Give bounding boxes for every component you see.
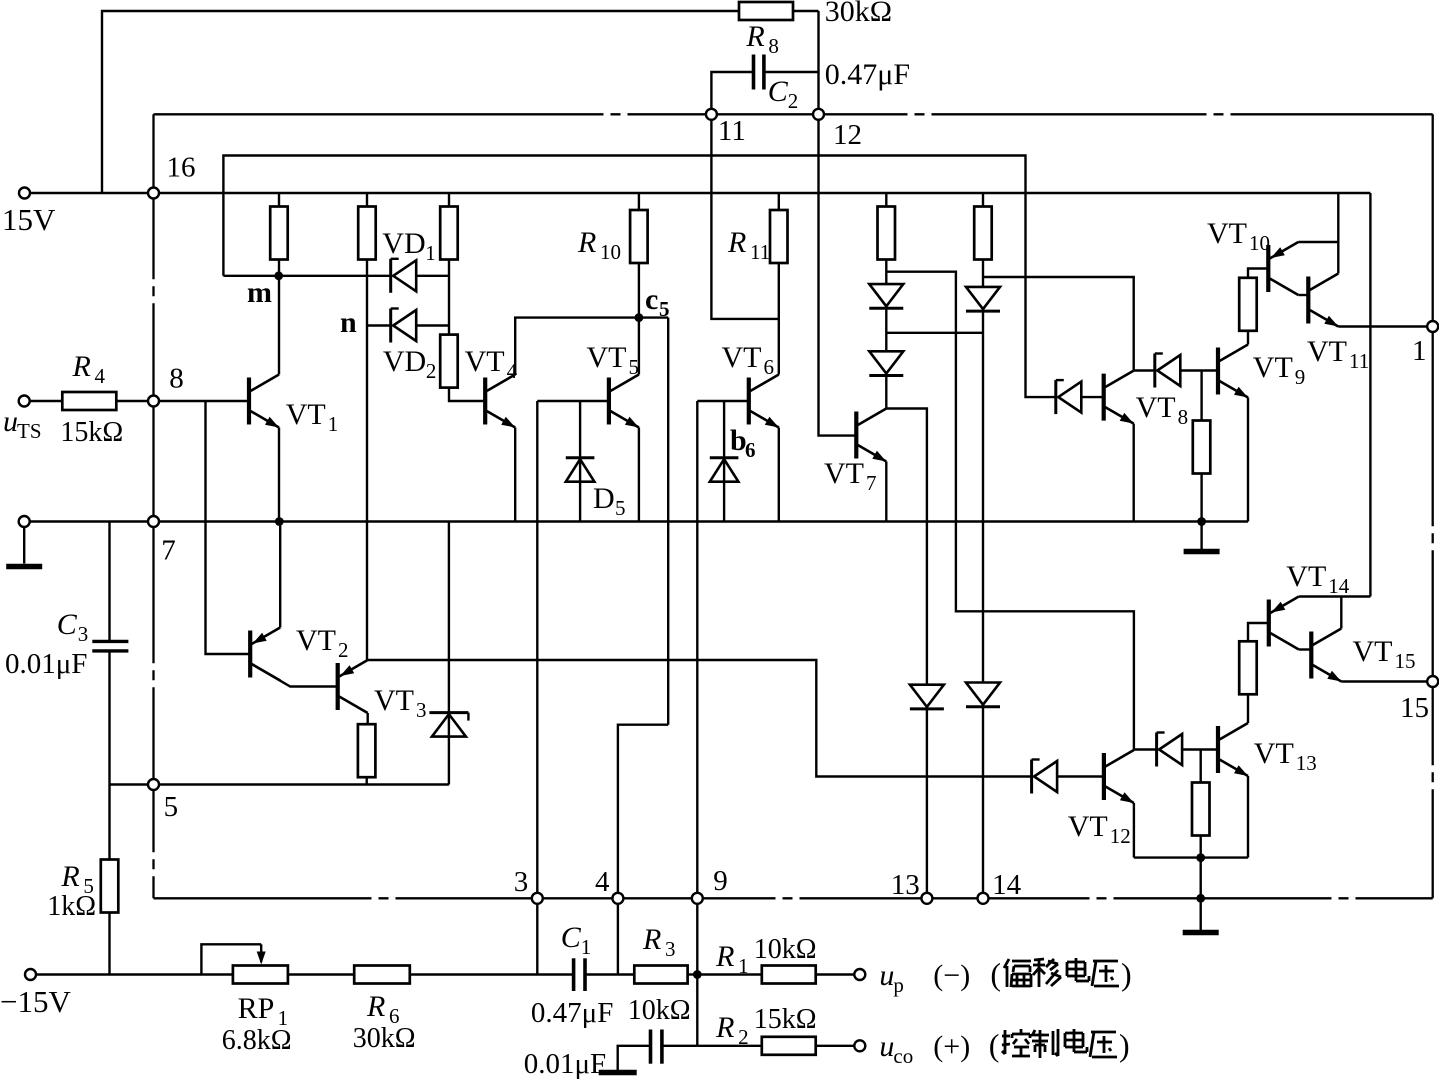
resistor (VT14 base) bbox=[1239, 641, 1257, 694]
wire VT15 emitter to pin 15 bbox=[1341, 680, 1427, 682]
resistor (VT10 base) bbox=[1239, 278, 1257, 331]
svg-text:2: 2 bbox=[738, 1025, 749, 1049]
svg-text:C: C bbox=[57, 608, 78, 641]
diode chain-2 upper bbox=[966, 287, 1000, 309]
wire VD1 anode to column bbox=[416, 275, 449, 277]
svg-text:): ) bbox=[1119, 1027, 1130, 1063]
svg-text:VT: VT bbox=[465, 345, 505, 378]
pin 5 bbox=[148, 779, 159, 790]
wire ground rail pin 7 bbox=[29, 520, 1248, 522]
15V supply terminal bbox=[19, 188, 30, 199]
svg-text:1: 1 bbox=[328, 412, 339, 436]
wire node m to VD1 cathode bbox=[223, 275, 390, 277]
wire terminal to R4 bbox=[29, 400, 62, 402]
svg-text:(+): (+) bbox=[933, 1030, 970, 1063]
svg-text:10: 10 bbox=[1249, 231, 1270, 255]
wire 0.01uF cap right lead bbox=[662, 1045, 697, 1047]
ground symbol below VT12/13 bbox=[1183, 930, 1219, 936]
resistor R11 bbox=[770, 210, 788, 263]
wire pin-11 column down to R11 node bbox=[711, 114, 778, 319]
wire stub rail to R11 bbox=[778, 193, 780, 210]
svg-text:8: 8 bbox=[768, 34, 779, 58]
resistor (bias chain n) bbox=[358, 207, 376, 260]
wire rail down to C3 bbox=[108, 522, 110, 642]
resistor (bias chain VD1) bbox=[440, 207, 458, 260]
wire chain-2 column bbox=[982, 311, 984, 682]
wire stub rail to chain-1 resistor bbox=[885, 193, 887, 207]
svg-text:6.8kΩ: 6.8kΩ bbox=[222, 1025, 292, 1056]
pin 16 bbox=[148, 188, 159, 199]
svg-text:u: u bbox=[879, 1030, 894, 1063]
svg-text:12: 12 bbox=[1110, 824, 1131, 848]
svg-text:VD: VD bbox=[382, 227, 425, 260]
wire resistor to VT10 base bbox=[1248, 269, 1268, 278]
wire c5 corner down to pin-4 jog bbox=[667, 318, 669, 725]
wire emitter common line bbox=[1134, 856, 1248, 858]
wire 15V rail corner down to VT14 bbox=[1369, 193, 1371, 597]
wire C3 to R5 bbox=[108, 651, 110, 860]
svg-text:R: R bbox=[727, 226, 746, 259]
capacitor C2 plates bbox=[752, 55, 756, 90]
wire stub rail to R10 bbox=[638, 193, 640, 210]
wire D5 column bbox=[579, 401, 581, 522]
wire resistor to node n and VT3 emitter bbox=[366, 260, 368, 660]
wire R5 to -15V rail bbox=[108, 913, 110, 975]
wire VT8 emitter to ground rail bbox=[1132, 424, 1134, 522]
svg-text:VT: VT bbox=[1254, 737, 1294, 770]
svg-text:4: 4 bbox=[595, 866, 610, 898]
transistor VT9 bbox=[1216, 348, 1220, 395]
wire VT13 base resistor stub bbox=[1199, 750, 1201, 783]
wire chain-2 to VT8 collector bbox=[983, 277, 1134, 371]
svg-text:14: 14 bbox=[1328, 574, 1350, 598]
wire chain cross link bbox=[886, 332, 983, 334]
wire pin-5 line bbox=[110, 783, 449, 785]
svg-text:D: D bbox=[593, 482, 615, 515]
wire VT14 emitter to supply drop bbox=[1299, 595, 1371, 597]
diode chain-1 lower bbox=[869, 351, 903, 373]
svg-text:7: 7 bbox=[161, 535, 176, 567]
wire stub rail to R(VD column 3) bbox=[448, 193, 450, 207]
u_TS input terminal bbox=[19, 396, 30, 407]
wire pin-9 column bbox=[696, 401, 698, 898]
diode at pin-14 column bbox=[966, 683, 1000, 705]
resistor R1 10k bbox=[762, 966, 816, 984]
svg-text:c: c bbox=[645, 283, 658, 316]
svg-text:15: 15 bbox=[1400, 692, 1429, 724]
capacitor 0.01uF plates bbox=[649, 1030, 653, 1064]
wire from 15V branch up to R8 bbox=[102, 11, 739, 193]
svg-text:3: 3 bbox=[78, 622, 89, 646]
svg-text:15kΩ: 15kΩ bbox=[60, 417, 123, 448]
wire R8 right to pin-12 column bbox=[792, 10, 818, 12]
wire R11 down to VT6 collector bbox=[778, 263, 780, 375]
RP1 wiper return wire bbox=[201, 944, 261, 974]
potentiometer RP1 body bbox=[233, 966, 288, 984]
svg-text:15V: 15V bbox=[2, 202, 56, 237]
resistor R2 15k bbox=[762, 1037, 816, 1055]
wire resistor to node m bbox=[278, 260, 280, 276]
svg-text:(−): (−) bbox=[933, 959, 970, 992]
wire VT2 collector to VT3 base bbox=[252, 664, 338, 687]
wire bottom node to R2 bbox=[697, 1045, 762, 1047]
ground symbol below VT9 resistor bbox=[1200, 522, 1202, 550]
wire -15V rail to RP1 bbox=[36, 973, 233, 975]
capacitor C1 plates bbox=[572, 958, 576, 991]
svg-text:VT: VT bbox=[587, 341, 627, 374]
wire RP1 to R6 bbox=[288, 973, 354, 975]
wire VT12 collector to diode bbox=[1134, 748, 1157, 750]
diode at VT12 base bbox=[1030, 760, 1033, 794]
wire diode to VT13 base bbox=[1182, 748, 1218, 750]
svg-text:9: 9 bbox=[713, 865, 728, 897]
pin 3 bbox=[532, 893, 543, 904]
transistor VT4 bbox=[483, 378, 487, 425]
svg-text:3: 3 bbox=[665, 937, 676, 961]
svg-text:10: 10 bbox=[600, 240, 621, 264]
svg-text:9: 9 bbox=[1295, 365, 1306, 389]
svg-text:5: 5 bbox=[615, 496, 626, 520]
wire R1 to u_p terminal bbox=[816, 973, 855, 975]
wire VT3 node to VT12 base diode bbox=[368, 660, 1032, 777]
wire VD2 anode to column bbox=[416, 324, 449, 326]
IC boundary left edge (dash-dot) bbox=[152, 114, 154, 898]
transistor VT8 bbox=[1102, 374, 1106, 421]
wire VT10 emitter to supply bbox=[1298, 241, 1338, 243]
transistor VT3 (PNP) bbox=[336, 663, 340, 710]
wire 0.01uF cap left lead to ground bbox=[618, 1046, 651, 1070]
svg-text:30kΩ: 30kΩ bbox=[825, 0, 892, 28]
junction resistor/ground rail bbox=[1197, 517, 1206, 526]
wire R4 to pin 8 and VT1 base bbox=[116, 400, 250, 402]
resistor R5 1k bbox=[101, 860, 119, 913]
wire C2 right lead bbox=[764, 71, 819, 73]
svg-text:VT: VT bbox=[1286, 560, 1326, 593]
wire R3 to junction bbox=[688, 973, 698, 975]
diode between VT12 and VT13 bbox=[1155, 733, 1158, 767]
svg-text:n: n bbox=[340, 306, 357, 339]
svg-text:u: u bbox=[3, 405, 18, 438]
svg-text:1kΩ: 1kΩ bbox=[47, 891, 96, 922]
svg-text:12: 12 bbox=[833, 119, 862, 151]
wire VT10 collector to VT11 base bbox=[1298, 294, 1308, 296]
svg-text:1: 1 bbox=[425, 241, 436, 265]
svg-text:15kΩ: 15kΩ bbox=[754, 1004, 817, 1035]
svg-text:RP: RP bbox=[238, 992, 275, 1025]
wire b6 diode column bbox=[723, 401, 725, 522]
wire supply to VT15 collector bbox=[1340, 597, 1342, 629]
wire VT2 emitter up to rail bbox=[279, 522, 281, 628]
transistor VT5 bbox=[607, 378, 611, 425]
wire VT7 emitter to ground rail bbox=[885, 462, 887, 522]
svg-text:VT: VT bbox=[722, 341, 762, 374]
resistor (VT4 base feed) bbox=[440, 335, 458, 388]
resistor R8 30k (horizontal) bbox=[739, 2, 793, 20]
diode (VT3 bias, on pin-5 column) bbox=[429, 711, 468, 714]
svg-text:30kΩ: 30kΩ bbox=[353, 1023, 416, 1054]
svg-text:R: R bbox=[60, 860, 79, 893]
wire VT14 collector to VT15 base bbox=[1299, 648, 1312, 650]
pin 11 bbox=[706, 109, 717, 120]
svg-text:VT: VT bbox=[1207, 217, 1247, 250]
ground symbol at input bbox=[23, 527, 25, 564]
svg-text:C: C bbox=[561, 921, 582, 954]
svg-text:8: 8 bbox=[169, 363, 184, 395]
svg-text:VT: VT bbox=[1253, 351, 1293, 384]
junction emitter common bbox=[1196, 853, 1205, 862]
wire diode to VT12 base bbox=[1057, 775, 1104, 777]
svg-text:VT: VT bbox=[374, 684, 414, 717]
wire C1 to R3 bbox=[585, 973, 634, 975]
svg-text:14: 14 bbox=[992, 869, 1022, 901]
svg-text:6: 6 bbox=[745, 438, 756, 462]
pin 9 bbox=[692, 893, 703, 904]
svg-text:7: 7 bbox=[866, 471, 877, 495]
svg-text:11: 11 bbox=[1349, 349, 1369, 373]
wire VT9 emitter to ground rail bbox=[1247, 398, 1249, 522]
svg-text:VT: VT bbox=[1307, 335, 1347, 368]
u_p terminal bbox=[854, 969, 865, 980]
svg-text:10kΩ: 10kΩ bbox=[628, 995, 691, 1026]
diode chain-1 upper bbox=[869, 284, 903, 306]
svg-text:VD: VD bbox=[383, 345, 426, 378]
wire diode to pin 13 bbox=[926, 709, 928, 898]
wire VT3 collector to emitter resistor bbox=[367, 713, 369, 724]
wire VT6 emitter to ground rail bbox=[778, 428, 780, 522]
svg-text:10kΩ: 10kΩ bbox=[754, 934, 817, 965]
junction on pin line bbox=[1196, 894, 1205, 903]
svg-text:C: C bbox=[768, 75, 789, 108]
IC boundary top edge (dash-dot) bbox=[154, 113, 1433, 115]
svg-text:13: 13 bbox=[891, 869, 920, 901]
svg-text:0.01μF: 0.01μF bbox=[524, 1048, 606, 1080]
wire chain-1 top to mirror column bbox=[886, 272, 1134, 750]
svg-text:−15V: −15V bbox=[0, 984, 71, 1019]
wire m-node to VT8 diode column bbox=[223, 156, 1055, 398]
svg-text:VT: VT bbox=[1136, 391, 1176, 424]
resistor (VT9 emitter-base) bbox=[1193, 421, 1211, 474]
wire resistor to pin-5 line bbox=[366, 777, 368, 784]
pin 8 bbox=[148, 396, 159, 407]
transistor VT10 (PNP) bbox=[1266, 245, 1270, 292]
wire stub rail to R(VD column 2) bbox=[366, 193, 368, 207]
wire pin5-column up to ground rail bbox=[448, 522, 450, 785]
wire diode to VT8 base bbox=[1081, 396, 1103, 398]
svg-text:0.01μF: 0.01μF bbox=[5, 648, 87, 680]
diode VD2 bbox=[389, 309, 392, 343]
svg-text:2: 2 bbox=[788, 89, 799, 113]
wire VT5 emitter to ground rail bbox=[638, 428, 640, 522]
resistor (VT12/13 emitter) bbox=[1192, 783, 1210, 836]
node c5 junction bbox=[635, 313, 644, 322]
svg-text:4: 4 bbox=[507, 359, 518, 383]
svg-text:TS: TS bbox=[17, 419, 42, 443]
wire VT9 base resistor stub bbox=[1200, 371, 1202, 421]
svg-text:4: 4 bbox=[95, 364, 106, 388]
svg-text:m: m bbox=[247, 276, 272, 309]
wire VT1 emitter to ground rail bbox=[278, 428, 280, 522]
wire VT4 collector to c5 line bbox=[515, 318, 668, 375]
svg-text:11: 11 bbox=[750, 240, 770, 264]
svg-text:R: R bbox=[642, 923, 661, 956]
wire node n to VD2 bbox=[367, 324, 391, 326]
wire VT12 emitter down to common bbox=[1133, 803, 1135, 858]
wire C2 left lead bbox=[711, 72, 753, 114]
ground input terminal bbox=[19, 516, 30, 527]
wire VT14 base to resistor bbox=[1248, 623, 1269, 641]
wire resistor to ground rail bbox=[1200, 474, 1202, 522]
resistor R6 30k bbox=[354, 966, 410, 984]
resistor (VT3 emitter) bbox=[358, 724, 376, 777]
resistor (diode chain 2) bbox=[974, 207, 992, 260]
IC boundary right edge (dash-dot) bbox=[1432, 114, 1434, 898]
pin 14 bbox=[978, 893, 989, 904]
wire supply drop to VT11 collector bbox=[1337, 193, 1339, 274]
wire chain-1 to VT7 collector bbox=[885, 376, 887, 409]
resistor (diode chain 1) bbox=[878, 207, 896, 260]
wire VT8 collector to diode bbox=[1134, 369, 1155, 371]
RP1 wiper arrow bbox=[260, 944, 262, 962]
svg-text:VT: VT bbox=[824, 457, 864, 490]
svg-text:R: R bbox=[72, 350, 91, 383]
wire pin-4 jog bbox=[618, 725, 668, 975]
svg-text:p: p bbox=[893, 973, 904, 997]
pin 1 terminal bbox=[1427, 321, 1438, 332]
svg-text:0.47μF: 0.47μF bbox=[825, 58, 910, 91]
wire resistor down through VD nodes bbox=[448, 260, 450, 335]
wire between chain-1 diodes bbox=[885, 308, 887, 351]
wire pin-12 column (R8/C2 down to VT7 base) bbox=[819, 11, 857, 436]
svg-text:5: 5 bbox=[659, 297, 670, 321]
wire diode to VT9 base bbox=[1180, 369, 1218, 371]
svg-text:(: ( bbox=[989, 1027, 1000, 1063]
svg-text:R: R bbox=[366, 990, 385, 1023]
svg-text:VT: VT bbox=[296, 624, 336, 657]
resistor R10 bbox=[630, 210, 648, 263]
wire VT7 collector to pin-13 column bbox=[886, 409, 927, 685]
svg-text:VT: VT bbox=[1068, 810, 1108, 843]
transistor VT14 (PNP) bbox=[1267, 600, 1271, 647]
transistor VT2 (PNP) bbox=[248, 631, 252, 678]
svg-text:R: R bbox=[715, 1011, 734, 1044]
svg-text:1: 1 bbox=[581, 935, 592, 959]
resistor (VT1 collector load) bbox=[270, 207, 288, 260]
junction VT1 emitter / VT2 emitter on rail bbox=[275, 517, 284, 526]
svg-text:R: R bbox=[577, 226, 596, 259]
u_co terminal bbox=[854, 1040, 865, 1051]
wire VT9 collector to VT10 base resistor bbox=[1247, 331, 1249, 345]
svg-text:2: 2 bbox=[338, 638, 349, 662]
svg-text:R: R bbox=[745, 20, 764, 53]
svg-text:co: co bbox=[893, 1044, 913, 1068]
pin 15 terminal bbox=[1427, 676, 1438, 687]
svg-text:8: 8 bbox=[1178, 405, 1189, 429]
-15V supply terminal bbox=[25, 969, 36, 980]
wire R10 to node c5 bbox=[638, 263, 640, 318]
svg-text:): ) bbox=[1121, 956, 1132, 992]
transistor VT12 bbox=[1102, 753, 1106, 800]
pin 4 bbox=[612, 893, 623, 904]
wire 15V rail bbox=[30, 192, 1371, 194]
wire pin-9 column to bottom bbox=[696, 898, 698, 1046]
wire resistor to common node bbox=[1199, 836, 1201, 858]
wire chain-2 column upper bbox=[982, 260, 984, 287]
wire R6 to C1 bbox=[410, 973, 574, 975]
IC boundary bottom edge (dash-dot) bbox=[154, 897, 1433, 899]
svg-text:1: 1 bbox=[1412, 335, 1427, 367]
ground symbol below 0.01uF bbox=[599, 1070, 637, 1076]
capacitor C3 plates bbox=[92, 640, 128, 643]
svg-text:(: ( bbox=[990, 956, 1001, 992]
diode between VT8 and VT9 bbox=[1153, 354, 1156, 388]
svg-text:u: u bbox=[879, 959, 894, 992]
wire R2 to u_co terminal bbox=[816, 1045, 855, 1047]
wire VT6 base to pin-9 column bbox=[697, 400, 749, 402]
pin 12 bbox=[813, 109, 824, 120]
wire stub rail to R(VT1 load) bbox=[278, 193, 280, 207]
transistor VT13 bbox=[1216, 726, 1220, 773]
wire chain-1 column bbox=[885, 260, 887, 285]
wire VT1 collector to m bbox=[278, 276, 280, 375]
wire diode to pin 14 bbox=[982, 707, 984, 899]
pin 7 bbox=[148, 516, 159, 527]
svg-text:5: 5 bbox=[629, 355, 640, 379]
wire VT5 base line to pin-3 column bbox=[537, 400, 609, 402]
wire VT4 emitter to ground rail bbox=[514, 428, 516, 522]
diode VD1 bbox=[389, 259, 392, 293]
svg-text:5: 5 bbox=[164, 791, 179, 823]
transistor VT11 bbox=[1306, 277, 1310, 324]
svg-text:3: 3 bbox=[416, 698, 427, 722]
svg-text:16: 16 bbox=[167, 152, 196, 184]
svg-text:2: 2 bbox=[426, 359, 437, 383]
transistor VT1 bbox=[247, 378, 251, 425]
wire VT13 emitter down bbox=[1247, 776, 1249, 858]
resistor R3 10k bbox=[634, 966, 687, 984]
pin 13 bbox=[921, 893, 932, 904]
wire stub rail to chain-2 resistor bbox=[982, 193, 984, 207]
node m junction bbox=[274, 271, 283, 280]
svg-text:0.47μF: 0.47μF bbox=[531, 997, 613, 1029]
svg-text:13: 13 bbox=[1296, 751, 1317, 775]
diode at b6 bbox=[710, 456, 739, 459]
wire resistor to VT4 base bbox=[449, 388, 485, 401]
svg-text:1: 1 bbox=[738, 954, 749, 978]
wire resistor to VT13 collector bbox=[1247, 694, 1249, 723]
svg-text:VT: VT bbox=[286, 398, 326, 431]
transistor VT6 bbox=[747, 378, 751, 425]
wire junction to R1 bbox=[697, 973, 762, 975]
junction R3/R1/pin9 bbox=[693, 970, 702, 979]
wire pin-3 column bbox=[536, 401, 538, 975]
transistor VT15 bbox=[1309, 632, 1313, 679]
svg-text:R: R bbox=[715, 940, 734, 973]
resistor R4 15k (horizontal) bbox=[62, 392, 116, 410]
diode at pin-13 column bbox=[910, 685, 944, 707]
wire VT11 emitter to pin 1 bbox=[1338, 325, 1427, 327]
wire pin8 line down to VT2 base bbox=[206, 401, 251, 654]
svg-text:VT: VT bbox=[1353, 635, 1393, 668]
svg-text:15: 15 bbox=[1395, 649, 1416, 673]
svg-text:3: 3 bbox=[514, 866, 529, 898]
transistor VT7 bbox=[854, 412, 858, 459]
svg-text:6: 6 bbox=[764, 355, 775, 379]
svg-text:11: 11 bbox=[718, 115, 746, 147]
diode at VT8 base bbox=[1054, 380, 1057, 414]
wire VT5 collector to c5 bbox=[638, 318, 640, 375]
diode D5 bbox=[566, 456, 595, 459]
wire common node to ground bbox=[1199, 858, 1201, 930]
